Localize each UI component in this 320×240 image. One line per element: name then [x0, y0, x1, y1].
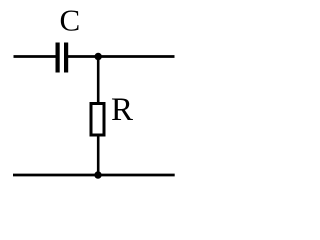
svg-text:C: C [60, 3, 81, 38]
wire: vertical segment from resistor down to node B [97, 135, 100, 175]
node A: top junction dot [95, 53, 102, 60]
capacitor C1: left plate [56, 43, 60, 73]
wire: vertical segment from node A down to resistor [97, 57, 100, 105]
svg-text:R: R [111, 92, 133, 128]
wire: bottom rail [13, 174, 175, 177]
resistor R1 (rectangle body) [91, 104, 104, 136]
node B: bottom junction dot [94, 171, 101, 178]
capacitor C1: right plate [64, 43, 68, 73]
wire: top-right segment (capacitor to node A and output) [68, 55, 175, 58]
wire: top-left segment (input to capacitor) [14, 55, 57, 58]
